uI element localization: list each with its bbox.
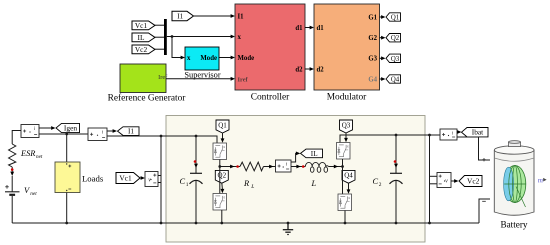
goto tag Q1 [386,13,401,22]
wire RL to IL sensor [264,165,276,169]
svg-text:Controller: Controller [251,93,290,103]
wire Vc1 to mux [155,24,164,26]
svg-text:Q4: Q4 [391,77,400,84]
svg-text:g: g [223,195,225,199]
wire midpoint to Q2 drain [219,167,221,194]
svg-text:net: net [36,154,43,160]
svg-text:ESR: ESR [20,149,35,158]
wire Q3 source to midpoint [342,159,344,167]
svg-text:Iref: Iref [238,76,249,83]
node C1 top [195,135,198,138]
svg-text:d2: d2 [295,67,303,74]
svg-text:Reference Generator: Reference Generator [108,93,187,104]
svg-text:d2: d2 [317,67,325,74]
from tag Vc1 [132,21,155,30]
from tag IL [132,33,155,42]
goto tag Q1 gate [216,120,229,133]
node C2 top [395,134,398,137]
transistor Q2 [213,194,227,211]
wire Iref to Controller [166,77,235,81]
svg-text:v: v [445,178,448,184]
wire sensor to inductor with arrow and polarity dot [291,165,305,169]
wire battery minus to bottom rail [479,199,490,223]
svg-text:x: x [187,55,191,62]
voltmeter Vc2 [430,173,452,188]
svg-text:Vc2: Vc2 [135,45,148,54]
wire rail to Ibat sensor [425,134,440,136]
svg-text:Q3: Q3 [342,121,351,129]
svg-text:IL: IL [311,150,318,158]
goto tag IL [301,149,323,158]
resistor ESRnet [9,144,16,167]
block Controller [235,4,305,103]
svg-text:2: 2 [379,182,382,188]
wire Q4 source to bottom rail [344,211,346,224]
wire d2 Controller to Modulator [305,67,314,71]
svg-text:g: g [223,145,225,149]
svg-text:G3: G3 [368,56,377,63]
voltmeter Vc1 [145,172,161,187]
inductor L [305,162,328,172]
wire sensor to Igen tag [39,126,56,130]
current sensor Igen [21,125,39,138]
svg-text:m: m [538,176,543,184]
svg-text:G4: G4 [368,76,377,83]
wire sensor I1 to converter rail [107,136,217,143]
svg-text:Mode: Mode [200,55,217,62]
from tag Vc1 sense [116,173,140,184]
block Modulator [314,4,380,103]
goto tag Igen [56,123,80,132]
wire sensor to Ibat tag [457,130,462,134]
resistor RL [240,162,264,171]
goto tag I1 [118,127,140,136]
ground [283,223,293,235]
wire Q2 gate [221,183,225,193]
svg-text:d1: d1 [317,25,325,32]
wire d1 Controller to Modulator [305,26,314,30]
wire Vc2 to mux [155,48,164,50]
block Supervisor [184,47,221,79]
node Vc1 sense top [160,135,163,138]
svg-text:C: C [180,177,186,186]
svg-text:Loads: Loads [82,173,104,183]
wire Loads to bottom rail [66,193,68,224]
svg-text:1: 1 [186,182,189,188]
svg-text:L: L [311,179,317,188]
svg-text:L: L [250,184,254,190]
svg-text:Q1: Q1 [218,121,227,129]
wire Q1 source to midpoint [219,160,221,167]
svg-text:g: g [347,144,349,148]
wire Supervisor Mode to Controller [219,56,235,60]
wire Vc1 tag to voltmeter [140,176,145,180]
current sensor Ibat [440,129,457,140]
svg-text:Q1: Q1 [391,15,399,22]
wire Q3 gate [344,133,348,143]
wire voltmeter to Vc2 tag [451,179,459,183]
wire sensor to I1 tag [107,129,117,133]
battery minus terminal [482,200,486,202]
port m [538,176,547,184]
svg-text:Vc1: Vc1 [119,174,132,183]
from tag Vc2 [132,45,155,54]
svg-text:Q2: Q2 [218,172,227,180]
capacitor C2 [390,135,403,223]
svg-text:I1: I1 [128,128,134,136]
current sensor IL [276,160,292,172]
svg-text:g: g [348,196,350,200]
svg-text:Iref: Iref [158,74,168,81]
wire Vc1 sense vertical [160,136,162,223]
converter subsystem panel [166,116,425,243]
svg-text:Modulator: Modulator [327,93,367,103]
goto tag Q4 [386,75,401,84]
wire G1 to goto tag Q1 [380,15,386,19]
transistor Q3 [337,143,351,160]
svg-text:Q3: Q3 [391,56,400,63]
svg-text:Battery: Battery [500,219,527,229]
wire IL to mux [155,36,164,38]
svg-text:IL: IL [138,33,145,42]
wire G2 to goto tag Q2 [380,36,386,40]
block Loads [55,162,104,193]
svg-text:Igen: Igen [64,124,77,133]
svg-text:Vc1: Vc1 [135,21,148,30]
svg-text:Ibat: Ibat [472,128,484,137]
wire Q1 gate [221,133,225,143]
svg-text:Q2: Q2 [391,35,400,42]
source Vnet [5,185,37,197]
mux bus bar [164,19,167,55]
wire generator top lead [12,131,21,145]
wire Q2 source to bottom rail [221,210,223,223]
svg-text:v: v [148,177,151,183]
wire ESRnet to Vnet with polarity dot [10,167,14,192]
wire Ibat sensor to battery plus [457,137,490,160]
svg-text:V: V [24,186,30,195]
wire Vc2 sense vertical [429,135,431,223]
node branch to Supervisor [171,35,174,38]
goto tag Q2 [386,34,401,43]
battery plus terminal [482,158,485,161]
wire right rail Q3 drain to C2 and edge [340,135,425,143]
svg-text:Supervisor: Supervisor [184,70,221,79]
wire G4 to goto tag Q4 [380,77,386,81]
bottom rail junction nodes [65,222,431,225]
goto tag Q3 [386,54,401,63]
transistor Q4 [338,194,352,211]
node right midpoint [341,165,344,168]
goto tag Q3 gate [340,120,353,133]
transistor Q1 [213,143,227,160]
label RL [243,179,254,190]
wire sensor to IL tag [291,152,300,163]
label ESRnet [20,149,43,160]
svg-text:G1: G1 [368,14,377,21]
goto tag Vc2 [459,176,482,187]
svg-text:R: R [243,179,249,188]
svg-text:I1: I1 [177,13,183,21]
goto tag Ibat [462,128,489,137]
bottom rail [12,222,479,224]
label C1 [180,177,189,188]
current sensor I1 [88,128,107,141]
node Vc2 sense top [428,134,431,137]
wire I1 tag to Controller [194,14,236,18]
wire sensor to load node [39,133,88,135]
svg-text:x: x [238,34,242,41]
wire Q4 gate [347,183,351,194]
wire G3 to goto tag Q3 [380,56,386,60]
wire branch to Supervisor [172,37,185,60]
block Reference Generator [108,64,187,104]
from tag I1 [172,11,194,20]
svg-text:I1: I1 [238,14,245,21]
svg-text:Vc2: Vc2 [467,177,480,186]
svg-text:C: C [373,177,379,186]
svg-text:Q4: Q4 [344,172,353,180]
svg-text:d1: d1 [295,25,303,32]
node load branch [65,133,68,136]
wire mux to Controller x [167,35,235,39]
wire L to right midpoint [328,165,342,169]
capacitor C1 [190,136,203,223]
goto tag Q4 gate [342,170,355,183]
node left midpoint [218,165,221,168]
wire Vnet to bottom rail [11,196,13,223]
goto tag Q2 gate [215,170,228,183]
wire midpoint to Q4 drain [342,167,344,195]
wire midpoint to RL with arrow and polarity dot [220,165,240,169]
svg-text:Mode: Mode [238,55,255,62]
battery Battery [494,141,534,230]
svg-text:net: net [30,191,37,197]
wire node to Loads [66,134,68,162]
label C2 [373,177,382,188]
svg-text:G2: G2 [368,35,377,42]
